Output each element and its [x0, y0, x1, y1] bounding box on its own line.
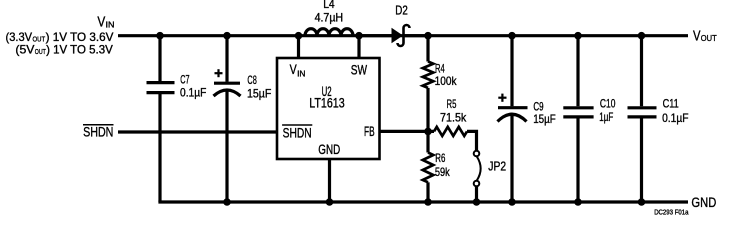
svg-text:SHDN: SHDN	[83, 124, 113, 139]
wire SW pin	[357, 36, 360, 58]
svg-text:IN: IN	[106, 20, 115, 30]
resistor R4	[423, 62, 434, 88]
wire C7 top lead	[158, 36, 161, 81]
wire C7 bottom lead	[158, 94, 161, 202]
svg-text:C8: C8	[247, 73, 257, 87]
resistor R5	[434, 127, 467, 136]
svg-text:JP2: JP2	[488, 159, 506, 173]
wire C10 bottom lead	[576, 118, 579, 202]
svg-text:SHDN: SHDN	[283, 126, 312, 141]
svg-text:R4: R4	[435, 61, 445, 75]
wire JP2 to ground	[475, 186, 478, 202]
wire R5 to JP2	[467, 131, 477, 150]
capacitor C10	[563, 108, 593, 117]
capacitor C11	[628, 108, 657, 117]
IC U2 LT1613 box	[277, 58, 380, 159]
svg-text:R6: R6	[435, 151, 445, 165]
svg-text:(3.3V: (3.3V	[6, 31, 33, 44]
wire C10 top lead	[576, 36, 579, 107]
svg-text:71.5k: 71.5k	[440, 110, 467, 124]
wire VIN pin	[297, 36, 300, 58]
wire top rail VIN to VOUT	[118, 34, 688, 37]
svg-text:15µF: 15µF	[533, 112, 556, 126]
svg-text:V: V	[97, 15, 105, 31]
wire GND pin	[328, 159, 331, 202]
svg-text:SW: SW	[351, 63, 367, 78]
wire FB node to R6	[426, 131, 429, 152]
node junction dots top rail	[156, 32, 645, 40]
svg-text:L4: L4	[323, 0, 335, 11]
wire C11 bottom lead	[640, 118, 643, 202]
wire FB	[381, 130, 435, 133]
svg-text:4.7µH: 4.7µH	[315, 12, 344, 24]
wire C8 top lead	[225, 36, 228, 82]
svg-text:1µF: 1µF	[599, 110, 613, 124]
svg-text:OUT: OUT	[701, 33, 717, 43]
svg-text:) 1V TO 5.3V: ) 1V TO 5.3V	[46, 44, 113, 57]
svg-text:DC293 F01a: DC293 F01a	[654, 209, 688, 216]
svg-text:R5: R5	[447, 97, 457, 111]
node junction dots bottom rail	[223, 198, 645, 206]
svg-text:0.1µF: 0.1µF	[180, 86, 206, 100]
inductor L4	[305, 29, 353, 36]
svg-text:) 1V TO 3.6V: ) 1V TO 3.6V	[46, 31, 114, 44]
wire SHDN input	[118, 130, 277, 133]
svg-text:C7: C7	[180, 73, 189, 87]
wire D2 anode from SW node	[359, 34, 392, 37]
resistor R6	[423, 153, 434, 183]
svg-text:IN: IN	[297, 68, 305, 78]
svg-text:C11: C11	[663, 97, 679, 111]
svg-text:FB: FB	[364, 124, 375, 139]
wire C11 top lead	[640, 36, 643, 107]
svg-text:OUT: OUT	[33, 34, 46, 43]
svg-text:59k: 59k	[435, 165, 451, 179]
SHDN pin overline	[282, 124, 312, 126]
wire R4 bottom lead to FB node	[426, 88, 429, 131]
wire D2 cathode to R4 node	[404, 34, 429, 37]
capacitor C8 polarized	[214, 83, 241, 96]
svg-text:(5V: (5V	[15, 44, 34, 57]
jumper JP2	[474, 151, 480, 187]
svg-text:D2: D2	[395, 4, 408, 18]
svg-text:15µF: 15µF	[247, 86, 271, 100]
svg-text:OUT: OUT	[35, 47, 46, 56]
diode D2 Schottky	[392, 28, 404, 43]
svg-text:0.1µF: 0.1µF	[662, 111, 689, 125]
wire C8 bottom lead	[225, 90, 228, 202]
svg-text:GND: GND	[691, 195, 716, 210]
wire C9 top lead	[510, 36, 513, 107]
capacitor C7	[147, 83, 175, 93]
wire R4 top lead	[426, 36, 429, 62]
svg-text:100k: 100k	[435, 74, 458, 88]
svg-text:V: V	[693, 28, 701, 44]
wire C9 bottom lead	[510, 116, 513, 202]
wire bottom ground rail	[158, 200, 688, 203]
capacitor C9 polarized	[498, 108, 528, 122]
svg-text:C10: C10	[600, 96, 616, 110]
svg-text:GND: GND	[318, 142, 340, 157]
svg-text:V: V	[290, 62, 297, 77]
node FB junction dot	[424, 128, 432, 136]
svg-text:LT1613: LT1613	[309, 96, 345, 111]
wire R6 to ground	[426, 182, 429, 202]
